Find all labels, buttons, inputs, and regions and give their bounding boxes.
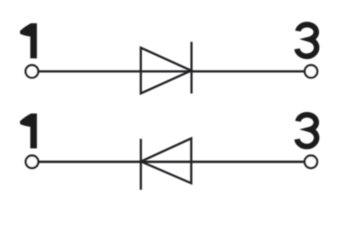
diode D2 (cathode left, anode right) <box>141 138 191 189</box>
pin label 1 (top diode, left terminal) <box>20 23 37 58</box>
pin label 1 (bottom diode, left terminal) <box>20 114 37 149</box>
wire (top row, terminal 1 to terminal 3 through D1) <box>39 70 304 72</box>
terminal node 1 (bottom, open circle) <box>26 156 39 169</box>
diode D1 (anode left, cathode right) <box>141 42 192 94</box>
wire (bottom row, terminal 1 to terminal 3 through D2) <box>39 161 304 163</box>
pin label 3 (bottom diode, right terminal) <box>297 115 317 147</box>
terminal node 3 (top, open circle) <box>305 65 318 78</box>
pin label 3 (top diode, right terminal) <box>297 25 317 57</box>
terminal node 1 (top, open circle) <box>26 65 39 78</box>
terminal node 3 (bottom, open circle) <box>305 156 318 169</box>
